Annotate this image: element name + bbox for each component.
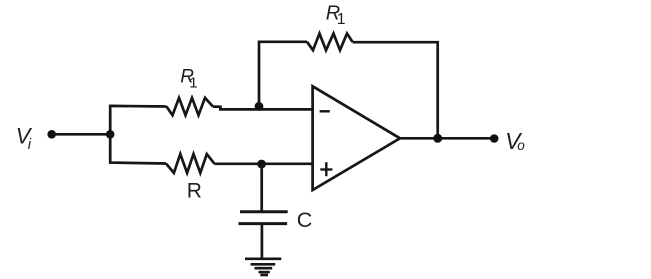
label C: [297, 208, 313, 232]
junction C dot (non-inverting input node): [257, 160, 266, 169]
resistor R1 (feedback, top): [307, 34, 353, 51]
label R1 (feedback resistor): [326, 3, 346, 28]
resistor R: [166, 154, 215, 173]
label R: [187, 180, 202, 203]
op-amp inverting pin minus sign: [320, 110, 330, 112]
wire R1 to op-amp inverting input: [213, 105, 222, 108]
svg-text:i: i: [28, 136, 32, 153]
wire Vi terminal to junction A: [52, 133, 112, 136]
wire junction B up and over to feedback resistor: [259, 42, 307, 108]
capacitor C bottom plate: [239, 222, 288, 225]
svg-text:o: o: [517, 138, 525, 153]
wire capacitor to ground: [261, 223, 264, 259]
svg-text:C: C: [297, 208, 313, 232]
wire R to op-amp non-inverting input: [215, 162, 314, 165]
junction D dot (output node): [433, 134, 442, 143]
junction B dot (inverting input node): [255, 102, 264, 111]
node Vi label: [16, 124, 33, 153]
wire junction C down to capacitor: [260, 164, 263, 212]
resistor R1 (input, middle): [167, 98, 214, 115]
svg-text:1: 1: [189, 75, 197, 92]
ground symbol: [245, 259, 281, 275]
node Vo label: [505, 128, 525, 154]
wire junction A branches (up and down): [110, 106, 166, 164]
svg-text:1: 1: [337, 11, 346, 28]
label R1 (input resistor): [180, 67, 197, 92]
wire op-amp output: [399, 137, 495, 140]
op-amp non-inverting pin plus sign: [320, 162, 332, 176]
input terminal dot Vi: [47, 130, 56, 139]
output terminal dot Vo: [490, 134, 499, 143]
wire feedback resistor down to output node: [353, 42, 438, 139]
svg-text:R: R: [187, 180, 202, 203]
op-amp U1 triangle: [313, 86, 400, 190]
junction A dot: [106, 130, 115, 139]
capacitor C top plate: [240, 210, 288, 213]
